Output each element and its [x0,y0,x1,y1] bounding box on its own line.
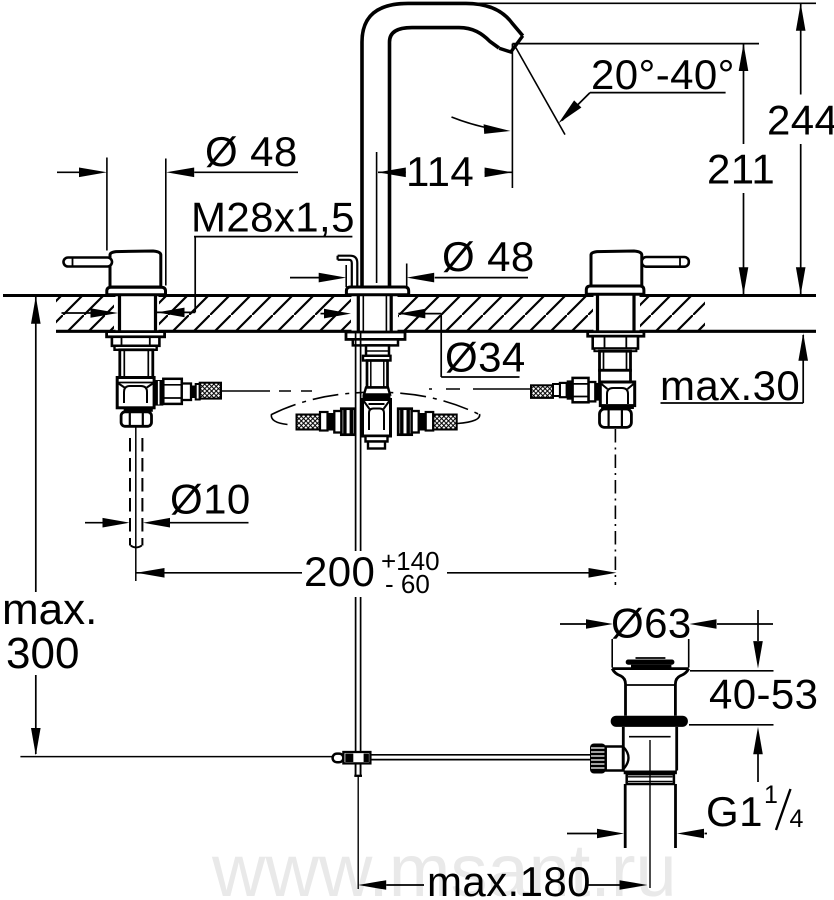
max30 arrow [798,333,808,360]
svg-text:Ø10: Ø10 [170,476,251,523]
left handle body [110,251,161,287]
left hose rings [191,386,196,399]
T right port nut [398,409,412,435]
right backnut [593,336,638,348]
rod pill end [333,754,344,763]
basin outline arc (dash-dot dome) [272,392,480,414]
thread groove collar [627,774,674,784]
right bottom nut [600,409,632,427]
swivel arc [452,117,505,131]
right backnut flange [588,332,644,337]
left union nut [163,379,182,404]
left escutcheon [107,287,166,295]
right elbow left port collar [595,383,600,401]
knurled knob [590,744,606,774]
T bottom pieces [366,436,388,442]
G1 arrows [597,829,624,839]
svg-text:200: 200 [304,548,375,595]
40-53 arrows [753,641,763,668]
countertop hatched band [3,296,816,332]
center-right braided hose [433,415,457,430]
max300 arrows [31,296,41,323]
dim Ø48 center [290,277,321,279]
dim Ø10 [85,522,103,524]
left valve centerline [135,427,137,581]
horizontal rod to drain [370,755,590,760]
T-fitting block [363,400,391,437]
spout tube + curve [362,3,523,287]
right braided hose [531,385,553,398]
svg-text:Ø63: Ø63 [611,600,692,647]
center shank tube [367,361,388,388]
svg-text:Ø 48: Ø 48 [205,128,298,175]
svg-text:300: 300 [6,629,79,678]
dim Ø48 left: lines [57,171,80,173]
spray angle diagonal [514,44,565,134]
20-40 arrow [559,100,582,123]
left backnut [112,337,159,346]
right union pieces [589,382,596,401]
Ø48 left arrows [79,168,107,178]
dashed pipe below left valve [130,438,142,546]
left backnut flange [107,332,165,337]
pop-up rod knob [338,256,358,286]
drain body [623,727,676,771]
left braided hose [200,383,221,399]
left adapter [182,384,191,401]
svg-text:211: 211 [707,146,775,193]
svg-text:20°-40°: 20°-40° [591,51,735,98]
rod junction block [343,752,370,763]
rod below junction [356,763,361,774]
knob neck [606,747,623,771]
spout base plate [346,287,408,295]
left valve body [120,350,153,378]
svg-text:Ø34: Ø34 [445,334,526,381]
svg-text:4: 4 [790,805,804,833]
svg-text:G1: G1 [706,788,763,835]
left elbow right port collar [154,380,163,406]
body bottom band [624,771,677,775]
right handle body [591,251,642,286]
dim 211 top line [512,43,759,45]
drain gasket [611,716,688,727]
svg-text:max.30: max.30 [660,362,800,409]
left shank through counter [116,294,159,333]
dim max300 vertical [35,296,37,754]
Ø34 arrows [324,309,351,319]
drain plug [636,657,666,659]
svg-text:M28x1,5: M28x1,5 [191,194,355,241]
dim max30 [661,402,804,404]
counter top edge [3,294,816,297]
horizontal reference line / rod left [20,756,332,758]
T left port nut [341,409,355,435]
center ring [363,356,391,361]
dim 244 top line [470,2,816,4]
left bottom collar [124,408,153,412]
max180 arrows [358,880,386,890]
dim max180 [386,884,620,886]
Ø48 center arrows [319,273,347,283]
svg-text:- 60: - 60 [385,569,430,599]
pipe centerline [649,740,651,888]
swivel arc arrow [484,124,511,134]
tip vertical extension [511,44,513,188]
Ø63 arrows [586,619,613,629]
left bottom nut [121,412,151,427]
right escutcheon [586,286,644,294]
tailpipe [625,784,675,848]
dim 211 vertical [743,44,745,295]
spout inner centerline [376,152,378,283]
center collar [366,345,389,355]
spout tip face [499,36,523,52]
dim 200 [137,572,591,574]
left lever [64,258,113,267]
right valve body [600,351,631,370]
dim M28 leader [194,236,352,238]
center backnut flange [346,332,405,339]
211 arrows [739,44,749,71]
svg-text:40-53: 40-53 [709,671,818,718]
244 arrows [796,3,806,30]
center-left braided hose [297,415,321,430]
left ring [115,346,157,350]
dim Ø63 [560,623,773,625]
center backnut [353,339,398,345]
dim Ø34 leader [321,313,327,315]
right valve dash-dot centerline [614,429,616,585]
drain flange [612,667,689,670]
right ring [594,349,636,352]
rod extension line down [357,777,359,890]
counter bottom edge [56,330,816,333]
M28 arrows [91,308,119,318]
hose centerline right (dash-dot) [429,388,531,390]
Ø10 arrows [103,518,130,528]
svg-text:Ø 48: Ø 48 [442,233,535,280]
200 arrows [137,568,165,578]
svg-text:max.: max. [2,585,97,634]
20-40 leader [590,92,726,94]
T left pieces [334,411,341,433]
right elbow block [600,382,634,406]
right lever [642,257,689,267]
svg-text:1: 1 [764,781,778,809]
pop-up rod (vertical) [356,332,361,776]
dim 244 vertical [800,3,802,294]
svg-text:max.180: max.180 [427,858,591,900]
dim 114 line stubs [378,171,512,173]
svg-text:114: 114 [406,148,474,195]
svg-text:244: 244 [767,97,834,144]
hose centerline left (dash-dot) [221,390,312,392]
dim 40-53 [689,671,774,725]
right bottom collar [601,406,634,409]
right shank through counter [594,294,640,333]
T-fitting transition [364,388,390,395]
dim G1 1/4 [567,833,707,835]
center shank through counter [352,294,398,333]
114 arrows [378,168,406,178]
T right pieces [412,411,419,433]
left elbow block [117,378,154,408]
